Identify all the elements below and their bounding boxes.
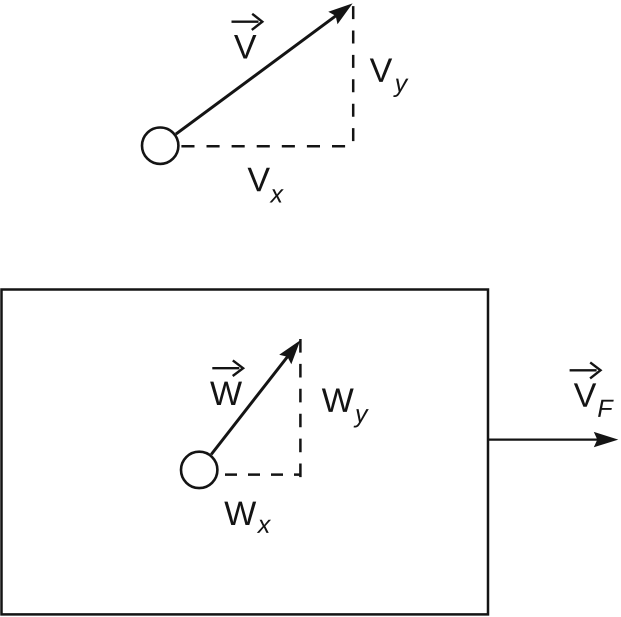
vector W shaft (211, 345, 296, 455)
label W overline arrow (212, 360, 243, 376)
vector W arrowhead (279, 340, 300, 364)
vector V arrowhead (328, 3, 352, 24)
vector VF arrowhead (594, 432, 619, 447)
dashed component line Wy (vertical) (299, 339, 302, 477)
label Vy (370, 58, 392, 81)
label Vx (248, 168, 270, 191)
dashed component line Wx (horizontal) (225, 473, 300, 476)
node circle (box origin) (181, 452, 217, 488)
label VF overline arrow (570, 362, 601, 378)
rectangle (box) (2, 290, 489, 615)
label Wx (224, 502, 256, 525)
node circle (top origin) (142, 128, 178, 164)
vector VF shaft (488, 438, 598, 440)
vector V shaft (176, 7, 348, 134)
dashed component line Vx (horizontal) (181, 145, 345, 148)
label Wy (322, 389, 354, 412)
label V (234, 35, 256, 58)
dashed component line Vy (vertical) (352, 6, 355, 141)
label W (210, 382, 242, 405)
label V overline arrow (232, 14, 263, 30)
label VF (574, 383, 596, 406)
